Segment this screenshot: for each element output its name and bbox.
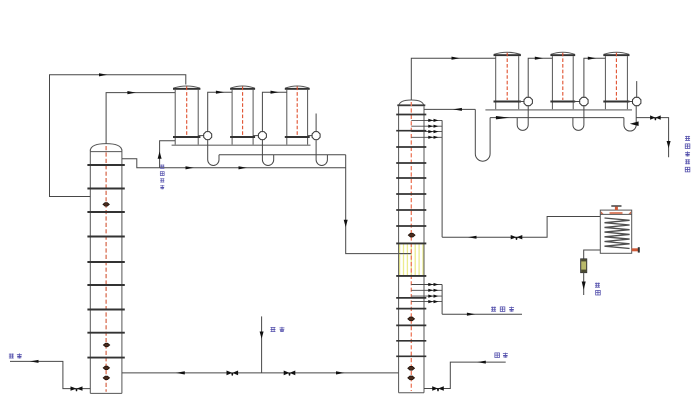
T2 marker e4 — [408, 376, 415, 380]
T2 lower draw stubs — [411, 285, 442, 302]
valve T2 bottom — [432, 386, 444, 390]
exchanger E6 — [603, 52, 629, 109]
label 回水 — [495, 353, 508, 358]
arrow to T1 — [176, 371, 185, 374]
T1 marker e2 — [103, 343, 110, 347]
exchanger E5 — [550, 52, 575, 109]
label 轻馏份杂质 — [685, 136, 690, 172]
valve steam left — [227, 371, 239, 376]
trap valve V4 — [524, 97, 532, 105]
junction arrow blob — [630, 121, 639, 126]
T2 tray 2 — [396, 130, 426, 132]
T1 tray 6 — [87, 284, 124, 286]
wire feed riser to platform — [160, 141, 176, 168]
T2 tray 11 — [396, 297, 426, 299]
label 成品 — [595, 283, 600, 295]
T2 tray 12 — [396, 308, 426, 310]
T1 marker e3 — [103, 366, 110, 370]
arrow riser — [452, 57, 461, 60]
U-seal under V3 — [316, 140, 327, 166]
T1 tray 5 — [87, 261, 124, 263]
trap valve V2 — [258, 132, 266, 140]
wire right manifold — [490, 117, 624, 119]
arrow product — [468, 236, 477, 239]
T1 marker e4 — [103, 376, 110, 380]
wire product line to cooler — [442, 217, 600, 238]
deep U seal — [475, 109, 490, 161]
T2 tray 5 — [396, 177, 426, 179]
trap valve V1 — [204, 132, 212, 140]
wire header drop to T2 feed — [346, 155, 411, 254]
wire E1 outlet stub — [198, 135, 204, 137]
T2 tray 6 — [396, 193, 426, 195]
arrow E5-E6 — [588, 57, 597, 60]
platform left group — [172, 144, 311, 146]
T2 marker e1 — [408, 233, 415, 237]
label 排水 — [9, 353, 22, 358]
wire T1 drain line — [10, 361, 90, 388]
upper stub arrows — [428, 119, 438, 139]
T2 tray 3 — [396, 146, 426, 148]
T2 tray 4 — [396, 162, 426, 164]
exchanger E3 — [285, 86, 310, 145]
wire condensate header — [219, 154, 346, 156]
arrow to T2 — [336, 371, 345, 374]
arrow product down — [582, 282, 586, 291]
wire lower collector — [441, 285, 443, 315]
arrow drain — [30, 360, 39, 363]
arrow feed 1 — [186, 166, 195, 169]
arrow steam down — [260, 332, 264, 339]
wire product down — [583, 273, 585, 295]
arrow 回水 — [477, 361, 486, 364]
arrow manifold — [496, 116, 509, 119]
wire cooler outlet — [584, 250, 601, 259]
column T2 packing section yellow hatch — [400, 244, 423, 276]
wire steam inlet drop — [261, 316, 263, 373]
lower stub arrows — [428, 283, 438, 303]
label 蒸汽 — [270, 327, 284, 332]
T2 tray 1 — [396, 114, 426, 116]
arrow on line B — [127, 91, 135, 94]
arrow drop down — [344, 220, 348, 227]
wire E2 outlet stub — [253, 135, 258, 137]
wire riser E1 to E2 — [208, 92, 232, 131]
T1 tray 2 — [87, 188, 124, 190]
trap valve V3 — [312, 132, 320, 140]
wire T2 bottom outlet to 回水 — [424, 362, 506, 388]
valve light ends — [650, 115, 661, 119]
column T1 shell — [90, 144, 122, 394]
wire E5 outlet stub — [573, 101, 580, 103]
arrow light ends down — [667, 141, 671, 148]
T1 tray 8 — [87, 332, 124, 334]
valve steam right — [284, 371, 296, 376]
wire upper collector — [441, 120, 443, 237]
arrow E2-E3 — [271, 91, 280, 94]
arrow E1-E2 — [216, 91, 225, 94]
T2 marker e3 — [408, 366, 415, 370]
T1 tray 7 — [87, 309, 124, 311]
valve on drain — [71, 386, 83, 390]
T1 tray 3 — [87, 211, 124, 213]
T2 tray 8 — [396, 225, 426, 227]
U-seal under V1 — [208, 140, 219, 166]
arrow on line A — [99, 73, 108, 76]
wire E6 vent — [636, 81, 638, 97]
T2 tray 15 — [396, 355, 426, 357]
arrow feed 2 — [239, 166, 248, 169]
wire reflux into T2 — [424, 108, 475, 110]
T1 marker e1 — [103, 203, 110, 207]
U-dip under V5 — [573, 106, 584, 131]
T2 tray 9 packing top — [396, 242, 426, 244]
T2 tray 7 — [396, 209, 426, 211]
arrow feed up — [158, 151, 162, 158]
T2 tray 13 — [396, 324, 426, 326]
U-dip under V4 — [517, 106, 528, 131]
exchanger E4 — [494, 52, 521, 109]
U-seal under V2 — [262, 140, 273, 166]
T2 tray 14 — [396, 340, 426, 342]
wire fusel oil line — [442, 313, 522, 315]
T2 marker e2 — [408, 317, 415, 321]
arrow E4-E5 — [535, 57, 544, 60]
arrow fusel — [467, 313, 476, 316]
T1 tray 4 — [87, 236, 124, 238]
rotameter FI — [581, 259, 587, 273]
wire E6 outlet stub — [627, 101, 632, 103]
wire E3 vent — [315, 114, 317, 132]
wire feed inner segment — [399, 253, 412, 255]
wire riser E2 to E3 — [262, 92, 286, 131]
cooler W1 — [600, 205, 640, 253]
column T2 centerline — [410, 102, 412, 391]
exchanger E1 — [173, 86, 200, 145]
wire riser E4 to E5 — [528, 58, 552, 97]
wire steam header (T1 to T2 bottom) — [122, 372, 399, 374]
U-dip under V6 — [624, 106, 636, 132]
label 杂醇油 — [491, 307, 514, 312]
trap valve V5 — [580, 97, 588, 105]
column T1 centerline — [105, 146, 107, 392]
T2 tray 10 packing bottom — [396, 275, 426, 277]
wire light ends outlet — [636, 118, 668, 158]
platform right group — [485, 109, 632, 111]
T1 tray 1 — [87, 164, 124, 166]
wire feed line from T1 — [122, 159, 346, 168]
wire riser E5 to E6 — [584, 58, 606, 97]
T2 upper draw stubs — [411, 120, 442, 137]
wire E4 outlet stub — [519, 101, 524, 103]
wire reflux line A (E1 top to T1 left side) — [50, 75, 186, 197]
column T2 shell — [397, 100, 425, 393]
trap valve V6 — [633, 97, 641, 105]
valve product — [511, 235, 523, 239]
wire vapor line B (T1 top to E1 left side) — [106, 93, 175, 144]
T1 tray 9 — [87, 357, 124, 359]
wire E3 outlet stub — [308, 135, 313, 137]
valve stems — [75, 118, 656, 392]
exchanger E2 — [230, 86, 255, 145]
wire T2 riser to E4 — [411, 58, 495, 100]
label 稀酒精进 — [160, 165, 164, 190]
arrow reflux — [453, 108, 462, 111]
